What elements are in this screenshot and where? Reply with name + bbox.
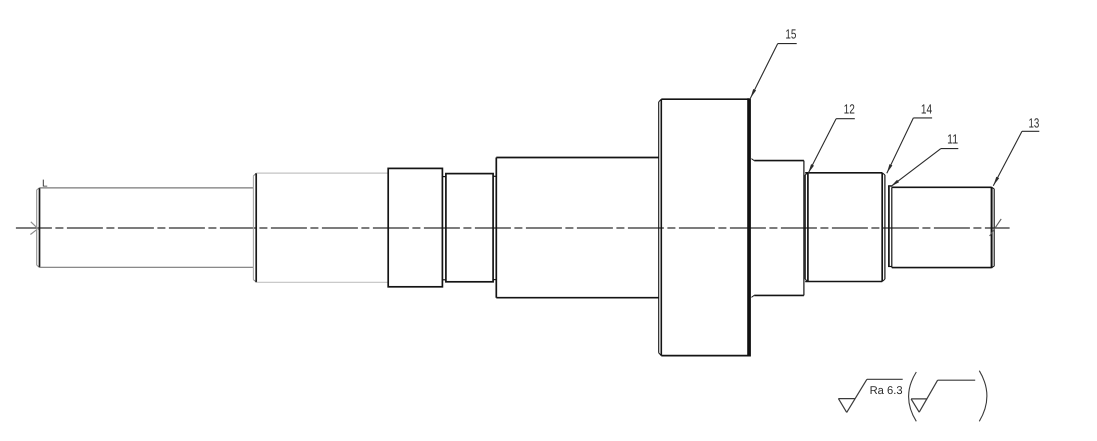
leader 13 [993, 131, 1039, 186]
leader 14 [887, 118, 932, 173]
flange thick right face (item 15 target) [747, 98, 751, 356]
section S4 [446, 174, 493, 282]
svg-text:14: 14 [921, 102, 932, 117]
section A (right of flange) [751, 159, 804, 298]
left end tick [30, 222, 39, 235]
svg-text:15: 15 [785, 26, 796, 41]
parenthesis right [979, 371, 987, 422]
right end tick [990, 219, 1002, 236]
centerline [16, 227, 1010, 229]
svg-text:12: 12 [844, 102, 855, 117]
surface finish symbol Ra 6.3 [838, 379, 902, 412]
section S2 [253, 173, 388, 282]
leader 12 [808, 119, 855, 174]
thin ring item 11 [888, 186, 892, 267]
groove between S4 and S5 [493, 176, 496, 279]
flange disc [659, 99, 749, 355]
section S5 (large body) [496, 158, 658, 298]
svg-text:11: 11 [947, 132, 958, 147]
groove between S3 and S4 [442, 177, 446, 280]
parenthesis left [909, 372, 917, 421]
section S1 journal (leftmost) [37, 188, 254, 267]
section B with chamfered ends (item 12 target) [805, 173, 885, 282]
svg-text:L: L [42, 178, 48, 189]
surface finish symbol (other surfaces) [911, 380, 975, 412]
section C (right shaft end, item 13 target) [892, 187, 994, 268]
leader 11 [891, 149, 959, 187]
svg-text:Ra 6.3: Ra 6.3 [870, 385, 903, 397]
leader 15 [750, 44, 796, 99]
svg-text:13: 13 [1029, 116, 1040, 131]
section S3 [388, 168, 442, 286]
